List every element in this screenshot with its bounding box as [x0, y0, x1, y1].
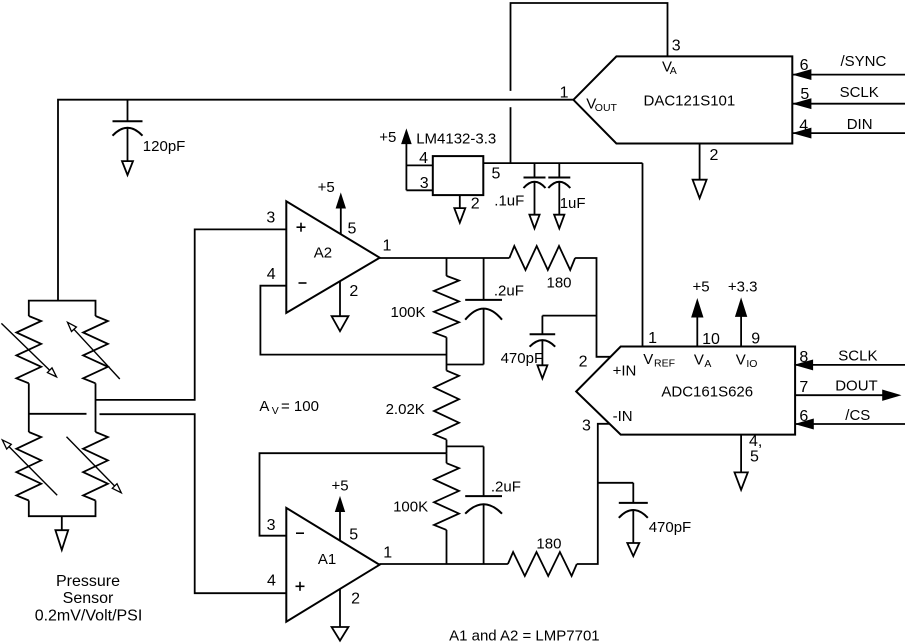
svg-text:5: 5 [800, 86, 809, 103]
svg-text:V: V [736, 352, 746, 369]
wire to ADC VREF pin1 [642, 163, 644, 347]
ground (DAC pin 2) [693, 180, 707, 199]
bridge ground stub [61, 516, 63, 530]
svg-text:1: 1 [383, 545, 392, 562]
svg-text:2: 2 [351, 590, 360, 607]
svg-text:.2uF: .2uF [494, 283, 524, 300]
svg-text:A: A [670, 65, 677, 77]
ADC pin 1 label [648, 330, 657, 347]
label A1 and A2 = LMP7701 [449, 627, 600, 643]
op-amp A1 [286, 508, 379, 622]
bridge left mid wire [28, 383, 30, 432]
svg-text:A1: A1 [318, 551, 336, 568]
A2 pin 3 label [266, 209, 275, 226]
DAC pin 6 /SYNC [792, 53, 905, 79]
svg-text:1: 1 [383, 238, 392, 255]
svg-text:+5: +5 [693, 279, 710, 296]
ground (A2 pin 2) [332, 283, 359, 331]
svg-text:+5: +5 [318, 179, 335, 196]
+5 supply arrow (A1 pin5) [332, 478, 359, 544]
op-amp A2 [286, 201, 379, 313]
svg-text:3: 3 [420, 175, 429, 192]
svg-text:2: 2 [710, 147, 719, 164]
pressure sensor bridge top bar [29, 301, 96, 316]
A1 pin 1 label [383, 545, 392, 562]
svg-text:180: 180 [536, 535, 561, 552]
arrow lower-right resistor [67, 437, 122, 493]
svg-text:SCLK: SCLK [840, 84, 879, 101]
svg-text:1uF: 1uF [560, 195, 586, 212]
ADC pin 2 label [579, 353, 588, 370]
svg-text:4: 4 [419, 150, 428, 167]
svg-text:V: V [272, 405, 279, 417]
variable resistor bridge upper-right [83, 316, 108, 383]
svg-text:6: 6 [800, 57, 809, 74]
wire bypass rail (LM4132 pin5 to caps) [483, 162, 642, 164]
capacitor 1uF [548, 163, 585, 228]
svg-text:100K: 100K [393, 498, 428, 515]
A2 pin 5 wire [340, 209, 342, 235]
DAC pin 4 DIN [792, 116, 905, 138]
svg-text:5: 5 [750, 449, 759, 466]
A2 pin 4 label [267, 266, 276, 283]
svg-text:+3.3: +3.3 [728, 279, 758, 296]
svg-text:9: 9 [751, 331, 760, 348]
A1 pin 2 wire [339, 589, 341, 627]
+5 supply arrow (LM4132 pin4) [379, 129, 411, 146]
label Pressure Sensor [35, 573, 143, 625]
DAC pin 1 label [560, 84, 569, 101]
svg-text:2: 2 [471, 195, 480, 212]
svg-text:A: A [259, 398, 269, 415]
DAC pin 2 wire [699, 144, 701, 180]
svg-text:0.2mV/Volt/PSI: 0.2mV/Volt/PSI [35, 608, 143, 625]
svg-text:DOUT: DOUT [835, 378, 878, 395]
wire VA supply loop (DAC pin3 to bypass rail) [511, 3, 668, 163]
A1 pin 3 label [267, 517, 276, 534]
arrow upper-right resistor [68, 322, 120, 379]
svg-text:/CS: /CS [845, 407, 870, 424]
svg-text:8: 8 [799, 349, 808, 366]
resistor 100K (bottom) [393, 453, 459, 564]
svg-text:.2uF: .2uF [491, 479, 521, 496]
DAC pin 5 SCLK [792, 84, 905, 108]
svg-text:A2: A2 [314, 245, 332, 262]
capacitor .2uF (bottom) [465, 446, 521, 564]
resistor 100K (top) [391, 258, 460, 371]
bridge right mid wire [95, 383, 97, 432]
ADC pin 8 SCLK [795, 347, 905, 369]
svg-text:SCLK: SCLK [838, 347, 877, 364]
+5 supply arrow (A2 pin5) [318, 179, 357, 238]
svg-text:-IN: -IN [613, 408, 633, 425]
svg-text:4,: 4, [749, 433, 762, 450]
ADC pin 3 label [582, 418, 591, 435]
svg-text:+IN: +IN [613, 362, 637, 379]
svg-text:4: 4 [267, 266, 276, 283]
svg-text:REF: REF [654, 357, 675, 369]
wire stub to 470pF top [542, 315, 596, 317]
pressure sensor bridge bottom bar [29, 501, 96, 517]
resistor 2.02K [386, 371, 459, 454]
svg-text:IO: IO [746, 358, 757, 370]
wire A1 feedback (pin3 to 2.02K/100K node) [260, 453, 447, 536]
svg-text:Sensor: Sensor [63, 590, 114, 607]
wire A2 output to 180 and ADC +IN [380, 258, 611, 357]
ADC pin 10 wire [696, 317, 698, 347]
capacitor .2uF (top) [465, 258, 524, 365]
svg-text:3: 3 [267, 517, 276, 534]
DAC pin 2 label [710, 147, 719, 164]
svg-text:4: 4 [267, 572, 276, 589]
svg-text:V: V [694, 352, 704, 369]
svg-text:5: 5 [492, 166, 501, 183]
IC DAC121S101 [573, 56, 792, 143]
svg-text:V: V [643, 351, 653, 368]
svg-text:/SYNC: /SYNC [841, 53, 887, 70]
svg-text:5: 5 [348, 220, 357, 237]
svg-text:7: 7 [799, 379, 808, 396]
svg-text:100K: 100K [391, 304, 426, 321]
wire node 2.02K to .2uF-bottom top [447, 445, 484, 447]
svg-text:3: 3 [672, 37, 681, 54]
arrow lower-left resistor [2, 440, 57, 495]
A2 pin 2 wire [339, 281, 341, 316]
variable resistor bridge lower-right [83, 432, 108, 501]
ground (LM4132 pin 2) [454, 208, 465, 223]
IC ADC161S626 [576, 347, 795, 435]
svg-text:4: 4 [799, 118, 808, 135]
svg-text:DAC121S101: DAC121S101 [644, 92, 736, 109]
variable resistor bridge upper-left [16, 316, 41, 383]
svg-text:2: 2 [579, 353, 588, 370]
wire VOUT net (DAC pin1 to bridge top) [58, 100, 573, 301]
ADC pin 9 wire [740, 317, 742, 347]
ADC pin 7 DOUT [795, 378, 900, 401]
ground (A1 pin 2) [332, 590, 361, 640]
svg-text:LM4132-3.3: LM4132-3.3 [416, 130, 496, 147]
wire node 100K-top to .2uF-top bottom [447, 364, 484, 366]
svg-text:120pF: 120pF [143, 138, 186, 155]
ADC pin 4,5 wire [740, 435, 742, 473]
wire A2 feedback (pin4 to 100K/2.02K node) [260, 286, 446, 355]
svg-text:6: 6 [799, 408, 808, 425]
svg-text:470pF: 470pF [501, 350, 544, 367]
capacitor 470pF (top) [501, 316, 556, 379]
svg-text:180: 180 [547, 275, 572, 292]
wire stub to 470pF bottom [598, 482, 634, 484]
svg-text:DIN: DIN [847, 116, 873, 133]
capacitor 470pF (bottom) [619, 483, 691, 556]
svg-text:3: 3 [266, 209, 275, 226]
svg-text:1: 1 [560, 84, 569, 101]
variable resistor bridge lower-left [16, 432, 41, 501]
ground (bridge) [55, 530, 68, 550]
A1 pin 5 wire [339, 512, 341, 541]
svg-text:ADC161S626: ADC161S626 [661, 383, 753, 400]
svg-text:1: 1 [648, 330, 657, 347]
IC LM4132-3.3 voltage reference [406, 130, 500, 212]
A1 pin 4 label [267, 572, 276, 589]
LM4132 pin 2 wire [459, 195, 461, 208]
svg-text:2: 2 [349, 283, 358, 300]
arrow upper-left resistor [1, 323, 56, 377]
svg-text:Pressure: Pressure [56, 573, 120, 590]
label Av = 100 [259, 398, 319, 417]
DAC pin 3 label [672, 37, 681, 54]
ground (ADC pins 4,5) [735, 433, 763, 490]
svg-text:+5: +5 [379, 129, 396, 146]
resistor 180 (bottom) [508, 535, 577, 576]
svg-text:+5: +5 [332, 478, 349, 495]
svg-text:A1 and A2 = LMP7701: A1 and A2 = LMP7701 [449, 627, 600, 643]
resistor 180 (top) [509, 246, 575, 292]
ADC pin 6 /CS [795, 407, 905, 429]
svg-text:5: 5 [349, 527, 358, 544]
wire A1 output to 180 and ADC -IN [380, 424, 610, 564]
+3.3 supply arrow (ADC pin9) [728, 279, 760, 348]
svg-text:.1uF: .1uF [494, 193, 524, 210]
svg-text:A: A [704, 358, 711, 370]
svg-text:= 100: = 100 [281, 398, 319, 415]
capacitor 120pF [113, 100, 186, 175]
svg-text:OUT: OUT [595, 102, 618, 114]
wire bridge - tap to A1 pin4 (crosses with gap) [29, 414, 287, 593]
svg-text:2.02K: 2.02K [386, 401, 425, 418]
svg-text:10: 10 [702, 331, 720, 348]
+5 supply arrow (ADC pin10) [692, 279, 720, 348]
wire bridge + tap to A2 pin3 [96, 229, 287, 400]
svg-text:470pF: 470pF [649, 519, 692, 536]
svg-text:3: 3 [582, 418, 591, 435]
capacitor .1uF [494, 163, 545, 228]
A2 pin 1 label [383, 238, 392, 255]
